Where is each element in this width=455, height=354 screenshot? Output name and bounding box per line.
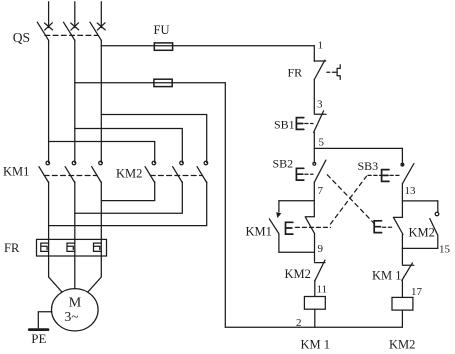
contactor KM2 NC interlock contact [315,260,325,281]
wire KM2 pole3 output crossover to L1 [49,182,207,226]
svg-text:FR: FR [4,241,20,255]
wire node 9 segment [314,234,316,262]
wire node1 corner [313,46,315,62]
wire FR to motor phase 3 [88,256,102,292]
SB1 actuator E [296,118,303,130]
svg-text:FR: FR [288,66,303,80]
pushbutton SB2 NC contact (right branch) [393,217,403,234]
FR heater element 1 [41,243,49,251]
switch QS pole 2 blade [64,22,75,40]
switch QS pole 1 blade [37,22,48,40]
SB3 NC actuator E [286,222,293,234]
svg-text:KM2: KM2 [389,338,415,352]
wire L1 feed to KM2 pole1 [49,142,155,163]
motor M circle [52,289,99,331]
contactor KM1 main pole 3 [99,161,103,165]
wire L2 down to FR [74,182,76,256]
svg-text:KM2: KM2 [285,267,311,281]
supply arrow L2 [71,23,79,30]
wire KM2 aux branch bottom [402,247,437,249]
wire L1 down to FR [48,182,50,256]
fuse FU1 [154,43,172,50]
KM1 mechanical link (dashed) [44,175,97,177]
SB2 dashes [305,173,313,175]
wire L1 supply drop [48,2,50,28]
KM1 auxiliary NO contact [278,201,280,212]
wire L3 supply drop [100,2,102,28]
wire control return vertical [224,83,226,327]
KM2 mechanical link (dashed) [150,175,202,177]
wire L3 to fuse FU1 [101,45,314,47]
fuse FU2 [154,79,172,86]
wire L3 feed to KM2 pole3 [101,115,206,163]
wire L2 supply drop [74,2,76,28]
contactor KM2 main pole 2 [180,161,184,165]
wire node 3-5 [313,132,315,163]
thermal relay FR heater box [37,239,107,256]
SB1 dashes [305,123,313,125]
contactor KM2 main pole 3 [204,161,208,165]
FR heater element 2 [67,243,75,251]
svg-text:FU: FU [154,23,170,37]
pushbutton SB3 NC contact (left branch) [305,217,315,234]
wire node 7 segment [313,182,315,216]
switch QS pole 3 blade [90,22,101,40]
wire KM1 aux branch top [279,200,314,202]
mechanical link SB2 diagonal (dashed) [327,175,375,225]
svg-text:9: 9 [318,243,324,255]
pushbutton SB2 NO contact [313,162,316,165]
wire KM2 pole2 output crossover to L2 [75,182,183,213]
svg-text:QS: QS [13,30,30,45]
wire FR to motor phase 1 [49,256,62,292]
supply arrow L1 [45,23,53,30]
contactor KM1 main pole 2 [72,161,76,165]
wire PE to motor [38,312,52,328]
wire L2 to fuse FU2 [75,82,226,84]
svg-text:3~: 3~ [65,309,79,324]
FR NC contact (control) [314,60,325,79]
wire node5 to right branch [314,147,402,149]
wire KM1 aux branch bottom [279,251,314,253]
wire node 1-3 [313,80,315,114]
svg-text:15: 15 [439,244,451,256]
ground bar PE [29,328,48,331]
svg-text:KM 1: KM 1 [301,338,331,352]
FR heater element 3 [94,243,102,251]
svg-text:17: 17 [411,286,423,298]
wire KM2 aux branch top [402,200,437,202]
svg-text:KM1: KM1 [246,225,272,239]
wire coil KM2 to bottom line [401,310,403,327]
wire L3 vertical [100,40,102,162]
supply arrow L3 [97,23,105,30]
svg-text:1: 1 [318,40,324,52]
SB3 dashes right [390,174,401,176]
contactor KM2 main pole 1 [152,161,156,165]
wire bottom control line [225,326,402,328]
SB2 NC dashes [383,226,393,228]
KM2 auxiliary NO contact [437,201,439,212]
wire L2 vertical [74,40,76,162]
svg-text:KM1: KM1 [3,165,29,179]
pushbutton SB1 NC contact [314,111,326,132]
FR trip actuator symbol [334,65,340,80]
coil KM1 [304,297,325,310]
SB3 dashes left [368,174,381,176]
svg-text:PE: PE [31,331,46,346]
wire L2 feed to KM2 pole2 [75,129,183,163]
wire right branch down [401,148,403,166]
wire node 15 segment [401,235,403,265]
svg-text:13: 13 [405,185,417,197]
svg-text:SB1: SB1 [274,118,295,132]
SB3 actuator E [382,170,389,182]
wire coil KM1 to node 2 [314,309,316,327]
wire KM2 pole1 output crossover to L3 [101,182,154,201]
wire node 11 [314,280,316,296]
svg-text:SB3: SB3 [358,159,379,173]
wire L1 vertical [48,40,50,162]
svg-text:KM2: KM2 [116,167,142,181]
wire node 13 segment [401,184,403,218]
SB2 NC actuator E [374,221,381,233]
wire node 17 [401,281,403,298]
svg-text:KM 1: KM 1 [372,269,402,283]
wire FR to motor phase 2 [74,256,76,289]
coil KM2 [392,297,413,310]
QS mechanical link (dashed) [45,34,98,36]
contactor KM1 NC interlock contact [402,263,414,281]
SB3 NC dashes across [295,226,330,228]
svg-text:3: 3 [317,99,323,111]
svg-text:2: 2 [296,317,302,329]
wire L3 down to FR [100,182,102,256]
svg-text:SB2: SB2 [273,157,294,171]
svg-text:7: 7 [318,185,324,197]
svg-text:KM2: KM2 [409,226,435,240]
FR dashes to actuator [327,71,335,73]
contactor KM1 main pole 1 [46,161,50,165]
svg-text:5: 5 [319,137,325,149]
svg-text:11: 11 [317,284,328,296]
SB2 actuator E [296,168,303,180]
mechanical link SB3 diagonal (dashed) [331,176,367,224]
pushbutton SB3 NO contact (right branch) [401,163,404,166]
